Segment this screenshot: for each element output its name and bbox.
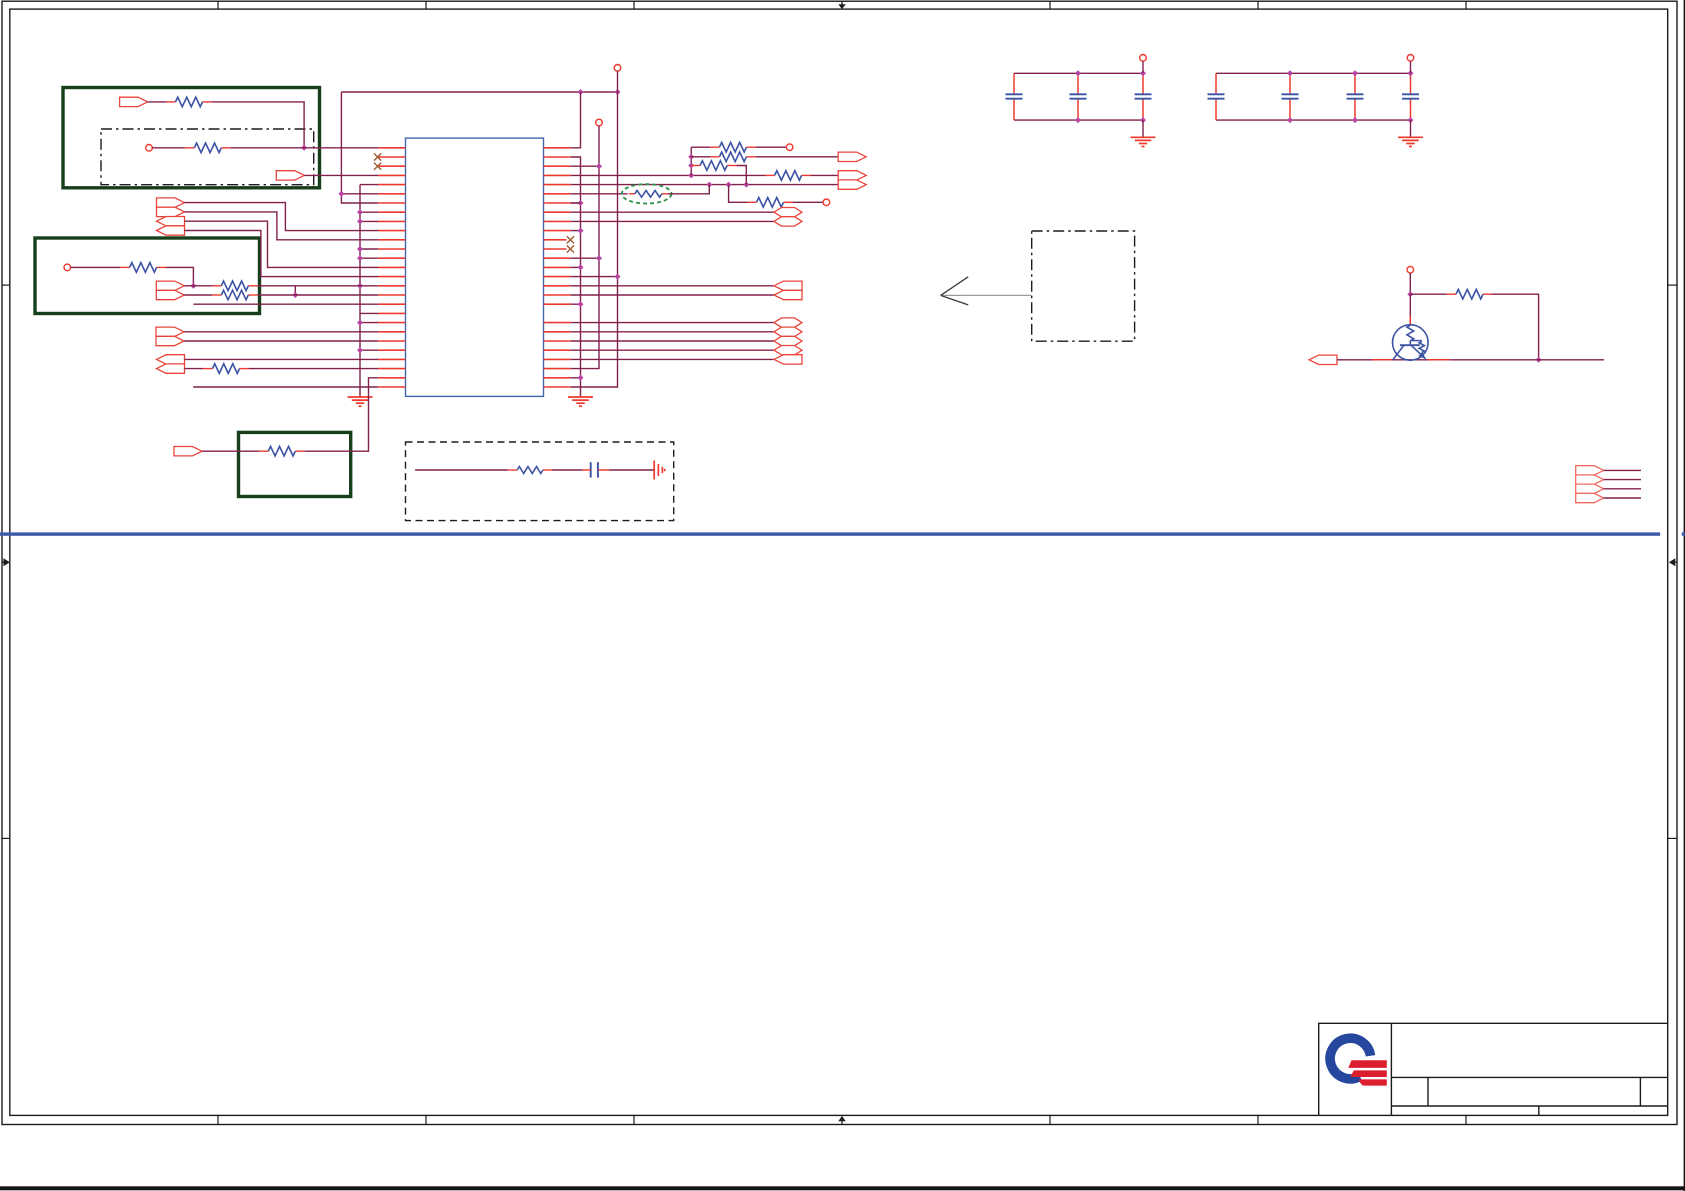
port P5 (157, 217, 185, 226)
junction V3 row14 (615, 274, 621, 280)
wire IC pin r4 to R10 (571, 174, 765, 176)
wire R1 to node (212, 102, 304, 148)
pin J9 (1407, 266, 1414, 273)
wire bus A branch row5 (341, 193, 378, 195)
wire R7 to pin J5 (756, 146, 787, 148)
wire R4 jog down (294, 286, 296, 295)
green highlight box 3 (239, 432, 351, 496)
wire R8 to port (756, 156, 838, 158)
wire IC pin r23 to port (571, 358, 774, 360)
junction r5 x746 (743, 182, 749, 188)
pin J3 (596, 119, 603, 126)
wire VDD top bus (341, 91, 617, 93)
port P7 (156, 281, 184, 290)
wire P5 to IC pin 14 (185, 221, 379, 267)
wire P3 to IC pin 10 (185, 203, 379, 231)
junction top bus/V3 (615, 89, 621, 95)
wire R6 to IC pin 25 (249, 368, 378, 370)
port P26 (1309, 355, 1337, 364)
wire R9 to row4 (737, 166, 747, 185)
resistor R7 (710, 146, 720, 148)
wire R14 to C8 (552, 469, 582, 471)
resistor R1 (166, 101, 176, 103)
port P14 (838, 171, 866, 180)
port P1 (120, 97, 148, 106)
border zone tick marks (217, 1, 219, 9)
wire V3 branch row14 (571, 276, 618, 278)
wire P6 to IC pin 15 (185, 231, 379, 277)
wire P12 to R6 (185, 368, 204, 370)
wire bus V3 (571, 71, 618, 387)
wire bus B pin branches (360, 211, 378, 213)
junction r5 x709 (706, 182, 712, 188)
blue separator line (0, 532, 1660, 535)
Qualcomm logo (1330, 1038, 1370, 1079)
cap bank 1 bus (1014, 72, 1143, 74)
wire emitter rail red left (1372, 359, 1392, 361)
wire Q1 collector lead (1409, 294, 1411, 325)
border arrow left (3, 558, 9, 566)
port P4 (157, 207, 185, 216)
IC U1 left pin stubs (378, 147, 405, 149)
pin J6 (823, 199, 830, 206)
pin J4 (614, 65, 621, 72)
capacitor C2 (1077, 73, 1079, 94)
port P15 (838, 180, 866, 189)
wire R2 to IC pin 1 (231, 147, 379, 149)
port P16 (838, 152, 866, 161)
wire J1 to R2 (152, 147, 185, 149)
pin J1 (146, 145, 153, 152)
wire R5 to IC pin 17 (258, 294, 379, 296)
wire IC pin r1 up (571, 92, 581, 148)
capacitor C6 (1354, 73, 1356, 94)
wire emitter rail (1337, 359, 1604, 361)
junctions on bus B (357, 209, 363, 215)
resistor R14 (508, 469, 517, 471)
no-connect X left pin 3 (374, 163, 381, 170)
port P19 (774, 281, 802, 290)
wire x691 top to R7 (691, 146, 710, 148)
junctions on bus V1 (578, 200, 584, 206)
port P11 (157, 355, 185, 364)
pin J8 (1407, 55, 1414, 62)
resistor R13 (259, 450, 269, 452)
resistor R6 (203, 368, 213, 370)
wire J9 stem (1409, 273, 1411, 294)
wire C8 to ground (609, 469, 653, 471)
wire R15 to emitter node (1492, 294, 1538, 360)
resistor R4 (212, 285, 222, 287)
wire IC pin r5 row (571, 184, 838, 186)
port P10 (156, 336, 184, 345)
junction emitter node (1536, 357, 1542, 363)
capacitor C8 (590, 462, 592, 477)
wire J7 stem (1142, 61, 1144, 73)
junction x691 row R9 (688, 163, 694, 169)
bottom page edge line (0, 1186, 1685, 1190)
callout arrow (941, 294, 1032, 296)
port P20 (774, 290, 802, 299)
wire bank2 gnd stem (1410, 120, 1412, 137)
resistor R15 (1447, 293, 1457, 295)
capacitor C1 (1013, 73, 1015, 94)
resistor R3 (120, 266, 130, 268)
ground GND2 (580, 396, 582, 399)
capacitor C3 (1142, 73, 1144, 94)
wires port stack (1604, 469, 1641, 471)
wire IC pin r9 to port (571, 220, 774, 222)
dash-dot box inside box 1 (101, 129, 314, 185)
wire R13 to IC pin 26 (305, 378, 379, 451)
resistor R2 (185, 147, 195, 149)
junction node E (190, 283, 196, 289)
right page edge line (1684, 0, 1685, 1191)
green highlight box 1 (63, 88, 320, 188)
wire IC pin r6 to ellipse (571, 193, 628, 195)
ground GND3 (1142, 136, 1144, 139)
junction A row5 (338, 191, 344, 197)
wire P2 to IC pin 4 (304, 174, 378, 176)
wire P4 to IC pin 11 (185, 212, 379, 240)
wire ground bus B (359, 185, 361, 397)
junction r5 x728 (726, 182, 732, 188)
ellipse marker (622, 184, 672, 203)
capacitor C5 (1289, 73, 1291, 94)
wire bus B top corner to row4 (360, 184, 378, 186)
wire x691 to R8 (691, 156, 710, 158)
junction Q1 base node (1407, 291, 1413, 297)
port P6 (157, 226, 185, 235)
wire P9 to IC pin 21 (184, 331, 378, 333)
port P24 (774, 346, 802, 355)
wire P11 to IC pin 24 (185, 358, 379, 360)
title block (1319, 1023, 1668, 1115)
wire emitter rail red right (1428, 359, 1450, 361)
wire P7 to R4 (184, 285, 212, 287)
wire bus A (341, 92, 378, 203)
port P13 (174, 447, 202, 456)
wire R11 to pin J6 (793, 201, 823, 203)
wire IC pin r7 short (571, 202, 581, 204)
junction top bus/V1 (578, 89, 584, 95)
resistor R9 (691, 165, 701, 167)
junctions bank2 (1287, 70, 1293, 76)
junctions bank1 (1075, 70, 1081, 76)
wire IC pin r8 to port (571, 211, 774, 213)
junction row16 jog (292, 292, 298, 298)
border arrow bottom (838, 1116, 845, 1121)
IC U1 body (406, 138, 544, 396)
wire R4 to IC pin 16 (258, 285, 379, 287)
wire R3 to node E (166, 267, 193, 285)
wire P13 to R13 (202, 450, 259, 452)
wire ground bus V1 (571, 157, 581, 397)
port P25 (774, 355, 802, 364)
wire V2 branch row12 (571, 257, 599, 259)
no-connect X right pin 11 (567, 245, 574, 252)
wire IC pin r16 to port (571, 285, 774, 287)
port P23 (774, 336, 802, 345)
wire J2 to R3 (71, 266, 121, 268)
port P22 (774, 327, 802, 336)
wire IC pin r21 to port (571, 340, 774, 342)
no-connect X left pin 2 (374, 153, 381, 160)
port stack P27-P30 (1576, 466, 1604, 475)
wire IC pin r20 to port (571, 331, 774, 333)
port P18 (774, 217, 802, 226)
wire IC pin r17 to port (571, 294, 774, 296)
pin J7 (1140, 55, 1147, 62)
wire row26 stub line (193, 386, 378, 388)
ground GND1 (359, 396, 361, 399)
resistor R8 (710, 156, 720, 158)
port P2 (276, 171, 304, 180)
port P12 (157, 364, 185, 373)
junction node R1/R2 (301, 145, 307, 151)
wire P1 to R1 (148, 101, 167, 103)
capacitor C4 (1215, 73, 1217, 94)
transistor Q1 (1393, 325, 1429, 361)
wire P10 to IC pin 22 (184, 340, 378, 342)
wire ellipse to row4 (668, 185, 710, 194)
wire P8 to R5 (184, 294, 212, 296)
port P8 (156, 290, 184, 299)
dash-dot callout box (1032, 231, 1135, 341)
junction V2 row12 (596, 255, 602, 261)
wire V2 branch row2 (571, 165, 599, 167)
wire row4 to R11 (729, 185, 748, 203)
junction x691 row R8 (688, 154, 694, 160)
ground GND4 (1410, 136, 1412, 139)
port P9 (156, 327, 184, 336)
port P3 (157, 198, 185, 207)
junction V2 row2 (596, 163, 602, 169)
no-connect X right pin 10 (567, 236, 574, 243)
wire J8 stem (1410, 61, 1412, 73)
dashed snubber box (406, 442, 674, 521)
border arrow right (1669, 558, 1675, 566)
junction r4 x691 (688, 172, 694, 178)
port P17 (774, 208, 802, 217)
pin J2 (64, 264, 71, 271)
wire row17 stub line (193, 303, 378, 305)
resistor R10 (765, 174, 775, 176)
wire IC pin r22 to port (571, 349, 774, 351)
capacitor C7 (1410, 73, 1412, 94)
IC U1 right pin stubs (544, 147, 571, 149)
ground GND5 (653, 461, 655, 480)
pin J5 (786, 144, 793, 151)
wire R10 to port (811, 174, 838, 176)
wire bus V1 pin branches (571, 202, 581, 204)
resistor R5 (212, 294, 222, 296)
border arrow top (838, 4, 845, 9)
wire IC pin r19 to port (571, 322, 774, 324)
wire base node to R15 (1410, 293, 1446, 295)
resistor R12 in ellipse (629, 193, 635, 195)
green highlight box 2 (35, 238, 260, 314)
wire bank1 gnd stem (1142, 120, 1144, 137)
wire bus V2 (571, 126, 599, 369)
wire snubber left (415, 469, 508, 471)
port P21 (774, 318, 802, 327)
wire x691 bus (690, 147, 692, 175)
resistor R11 (747, 201, 757, 203)
cap bank 2 bus (1216, 72, 1411, 74)
